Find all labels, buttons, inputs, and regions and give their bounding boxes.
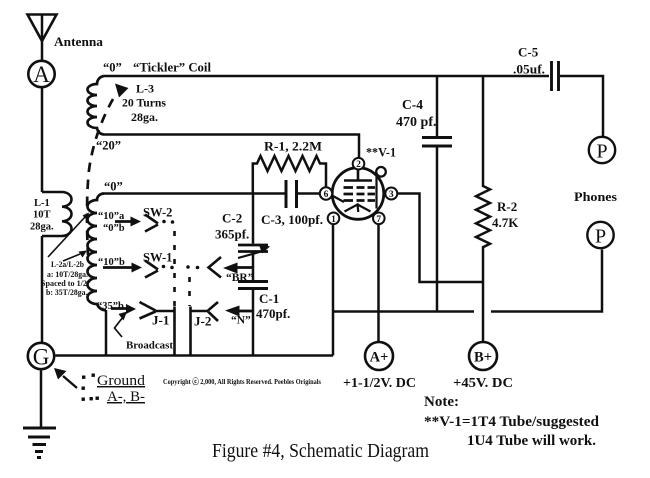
capacitor C-5 xyxy=(552,61,559,91)
capacitor C-2 (variable) xyxy=(238,244,270,259)
ground xyxy=(23,428,56,458)
svg-text:J-2: J-2 xyxy=(194,314,211,329)
mechanical link SW-2/SW-1/J-1 (dotted) xyxy=(173,231,176,306)
svg-text:B+: B+ xyxy=(474,350,492,366)
svg-text:470 pf.: 470 pf. xyxy=(396,114,437,129)
svg-text:4.7K: 4.7K xyxy=(492,215,519,230)
svg-text:C-3, 100pf.: C-3, 100pf. xyxy=(261,212,323,227)
label L-1 value xyxy=(30,198,54,233)
capacitor C-1 xyxy=(238,282,268,289)
svg-text:A-, B-: A-, B- xyxy=(107,389,145,405)
svg-text:“20”: “20” xyxy=(96,139,121,153)
wire L-1 to G xyxy=(41,236,44,342)
svg-text:28ga.: 28ga. xyxy=(30,222,54,233)
arrow "BR" xyxy=(223,263,253,274)
node G (ground terminal) xyxy=(28,343,54,370)
svg-text:3: 3 xyxy=(389,190,394,200)
svg-text:470pf.: 470pf. xyxy=(256,306,290,321)
pin 3 xyxy=(385,188,397,201)
svg-text:L-3: L-3 xyxy=(136,82,154,96)
svg-text:2: 2 xyxy=(356,160,361,170)
svg-text:**V-1=1T4 Tube/suggested: **V-1=1T4 Tube/suggested xyxy=(424,414,600,430)
resistor R-1 xyxy=(253,156,326,194)
pin 1 xyxy=(328,213,340,225)
pin 7 xyxy=(373,213,385,225)
wire pin 1 to ground bus xyxy=(332,224,335,356)
svg-text:“10”b: “10”b xyxy=(98,257,125,268)
svg-text:1: 1 xyxy=(331,215,336,225)
svg-text:Ground: Ground xyxy=(97,373,146,389)
svg-text:b: 35T/28ga.: b: 35T/28ga. xyxy=(46,287,88,297)
svg-text:G: G xyxy=(33,345,50,370)
vacuum tube V-1 xyxy=(332,167,386,219)
node A (antenna terminal) xyxy=(28,61,54,87)
mechanical link to J-2 (dotted) xyxy=(188,277,191,306)
svg-text:P: P xyxy=(595,226,606,248)
wire C-2 to C-1 xyxy=(252,253,255,281)
switch SW-2 xyxy=(115,215,174,232)
plate of V-1 xyxy=(344,170,372,181)
arrow L-2a/L-2b label long xyxy=(48,213,89,258)
inductor L-1 xyxy=(42,192,72,236)
arrow to J-1 (Broadcast tap) xyxy=(111,304,136,314)
wire C-1 to ground bus xyxy=(252,290,255,356)
wire G to earth xyxy=(40,371,43,428)
svg-text:“N”: “N” xyxy=(231,315,251,327)
svg-text:365pf.: 365pf. xyxy=(215,227,249,242)
wire C-5 to phones P1 xyxy=(560,76,603,136)
wire grid line "0" to C-3 xyxy=(104,192,285,195)
grid lead to pin 6 xyxy=(332,196,344,203)
svg-text:“0”: “0” xyxy=(104,180,123,194)
svg-text:“10”a: “10”a xyxy=(98,211,125,222)
capacitor C-3 xyxy=(286,180,297,208)
svg-text:J-1: J-1 xyxy=(152,313,169,328)
switch SW-1 xyxy=(103,257,221,278)
svg-text:C-2: C-2 xyxy=(222,211,242,226)
node B+ xyxy=(469,342,497,370)
svg-text:“0”: “0” xyxy=(103,61,122,75)
dashed winding annotation L-3 to L-2 xyxy=(87,84,129,256)
svg-text:“Tickler” Coil: “Tickler” Coil xyxy=(133,61,212,75)
arrow Ground label xyxy=(54,368,77,388)
svg-text:A+: A+ xyxy=(370,350,389,366)
wire A to L-1 xyxy=(41,88,44,192)
wire "20" tickler line to tube pin 2 xyxy=(104,135,359,159)
inductor L-2 tapped coil xyxy=(88,194,107,311)
wire C-3 to pin 6 xyxy=(298,192,321,195)
arrow L-2a/L-2b label short xyxy=(63,251,87,262)
label L-2a/L-2b block xyxy=(41,259,91,297)
svg-text:Broadcast: Broadcast xyxy=(126,340,173,352)
arrow Broadcast label xyxy=(115,312,128,338)
jack J-1 xyxy=(140,302,175,356)
wire top line "0" tickler to C-5 xyxy=(104,75,549,78)
svg-text:“0”b: “0”b xyxy=(103,223,125,234)
pin 2 xyxy=(353,158,365,170)
svg-text:Antenna: Antenna xyxy=(54,34,104,49)
antenna xyxy=(28,15,57,61)
wire L-2 bottom to ground bus xyxy=(105,310,108,356)
phones terminal P2 xyxy=(587,222,613,248)
svg-text:R-1, 2.2M: R-1, 2.2M xyxy=(264,139,322,154)
wire pin 7 to A+ xyxy=(377,224,380,341)
svg-text:20 Turns: 20 Turns xyxy=(122,96,166,110)
svg-text:“BR”: “BR” xyxy=(226,272,254,284)
tube pip xyxy=(376,167,386,177)
resistor R-2 xyxy=(476,76,490,341)
svg-text:Figure #4, Schematic Diagram: Figure #4, Schematic Diagram xyxy=(212,440,429,462)
wire pin 3 to B+ line xyxy=(397,194,483,283)
grid of V-1 xyxy=(344,188,376,201)
dotted bracket Ground label xyxy=(82,374,99,401)
svg-text:R-2: R-2 xyxy=(497,199,517,214)
jack J-2 xyxy=(191,302,219,356)
svg-text:C-5: C-5 xyxy=(518,45,539,60)
svg-text:+1-1/2V. DC: +1-1/2V. DC xyxy=(343,376,416,391)
svg-text:SW-1: SW-1 xyxy=(143,251,172,265)
svg-text:Copyright ⓒ 2,000, All Rights: Copyright ⓒ 2,000, All Rights Reserved. … xyxy=(163,376,321,386)
internal lead (pip to pin 7) xyxy=(375,176,377,209)
svg-text:+45V. DC: +45V. DC xyxy=(453,376,513,391)
svg-text:A: A xyxy=(33,62,50,87)
svg-text:SW-2: SW-2 xyxy=(143,206,172,220)
ground bus wire xyxy=(56,354,334,357)
svg-text:28ga.: 28ga. xyxy=(131,110,158,124)
svg-text:L-2a/L-2b: L-2a/L-2b xyxy=(51,259,84,269)
svg-text:.05uf.: .05uf. xyxy=(513,62,545,77)
inductor L-3 tickler coil xyxy=(88,76,105,135)
svg-text:6: 6 xyxy=(324,190,329,200)
wire grid branch down to C-2 xyxy=(252,194,255,244)
svg-text:Note:: Note: xyxy=(424,394,459,410)
phones terminal P1 xyxy=(589,137,615,163)
svg-text:7: 7 xyxy=(376,215,381,225)
svg-text:P: P xyxy=(596,141,607,163)
capacitor C-4 xyxy=(422,76,452,312)
node A+ xyxy=(365,342,393,370)
svg-text:1U4 Tube will work.: 1U4 Tube will work. xyxy=(467,433,596,449)
svg-text:C-4: C-4 xyxy=(402,97,423,112)
arrow "N" xyxy=(225,306,253,317)
svg-text:**V-1: **V-1 xyxy=(366,146,396,160)
svg-text:L-1: L-1 xyxy=(34,198,50,209)
svg-text:10T: 10T xyxy=(33,210,51,221)
filament of V-1 xyxy=(345,205,371,213)
svg-text:C-1: C-1 xyxy=(259,291,279,306)
B- bus wire xyxy=(333,250,602,312)
svg-text:Phones: Phones xyxy=(574,189,617,204)
svg-text:“35”b: “35”b xyxy=(97,301,124,312)
pin 6 xyxy=(320,187,332,200)
